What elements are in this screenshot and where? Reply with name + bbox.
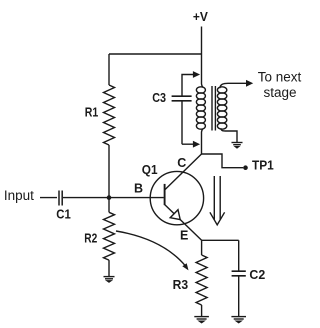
svg-text:R3: R3: [173, 278, 189, 292]
svg-text:R2: R2: [84, 231, 97, 245]
svg-text:+V: +V: [193, 10, 209, 24]
svg-text:TP1: TP1: [252, 159, 274, 173]
svg-text:B: B: [134, 181, 143, 195]
svg-text:To next: To next: [258, 70, 302, 85]
svg-text:C: C: [177, 156, 186, 170]
svg-text:Input: Input: [4, 188, 34, 203]
svg-text:E: E: [180, 229, 188, 243]
svg-text:C2: C2: [249, 268, 265, 282]
svg-text:R1: R1: [85, 105, 99, 119]
svg-text:C3: C3: [152, 91, 166, 105]
svg-text:C1: C1: [56, 207, 71, 221]
svg-text:Q1: Q1: [142, 163, 158, 177]
svg-text:stage: stage: [263, 85, 296, 100]
